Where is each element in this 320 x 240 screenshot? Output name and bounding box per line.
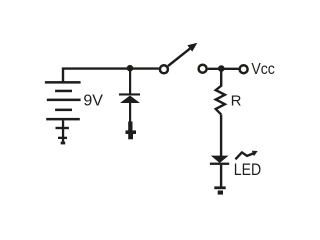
wire: battery positive up and across to switch pole	[63, 69, 159, 82]
wire: node A down to diode	[129, 68, 131, 94]
svg-text:LED: LED	[234, 161, 261, 179]
ground (below diode D1)	[126, 122, 137, 140]
wire: diode anode down to ground	[129, 102, 131, 123]
LED D2 (triangle pointing down with cathode bar)	[210, 156, 229, 165]
wire: switch throw to Vcc terminal	[208, 68, 239, 70]
resistor R	[216, 86, 225, 115]
svg-text:9V: 9V	[83, 93, 103, 110]
svg-text:R: R	[231, 93, 242, 110]
diode D1 (cathode bar on top, triangle pointing up)	[119, 93, 140, 103]
wire: LED cathode down to ground	[220, 165, 222, 188]
wire: resistor to LED	[220, 115, 222, 157]
switch S1 throw terminal	[199, 65, 207, 73]
ground (below LED)	[214, 186, 225, 194]
wire: node B down to resistor	[220, 69, 222, 87]
switch S1 pole terminal	[160, 65, 168, 73]
svg-text:Vcc: Vcc	[251, 61, 274, 78]
node B (junction of Vcc wire and resistor branch)	[218, 65, 225, 72]
switch S1 lever with arrow	[168, 43, 197, 66]
node A (junction of battery wire and diode branch)	[127, 65, 134, 72]
battery B1 (9V) plates	[45, 81, 81, 120]
ground (battery negative)	[56, 120, 69, 144]
terminal Vcc	[240, 65, 248, 73]
light-emission arrow of LED	[235, 151, 257, 160]
